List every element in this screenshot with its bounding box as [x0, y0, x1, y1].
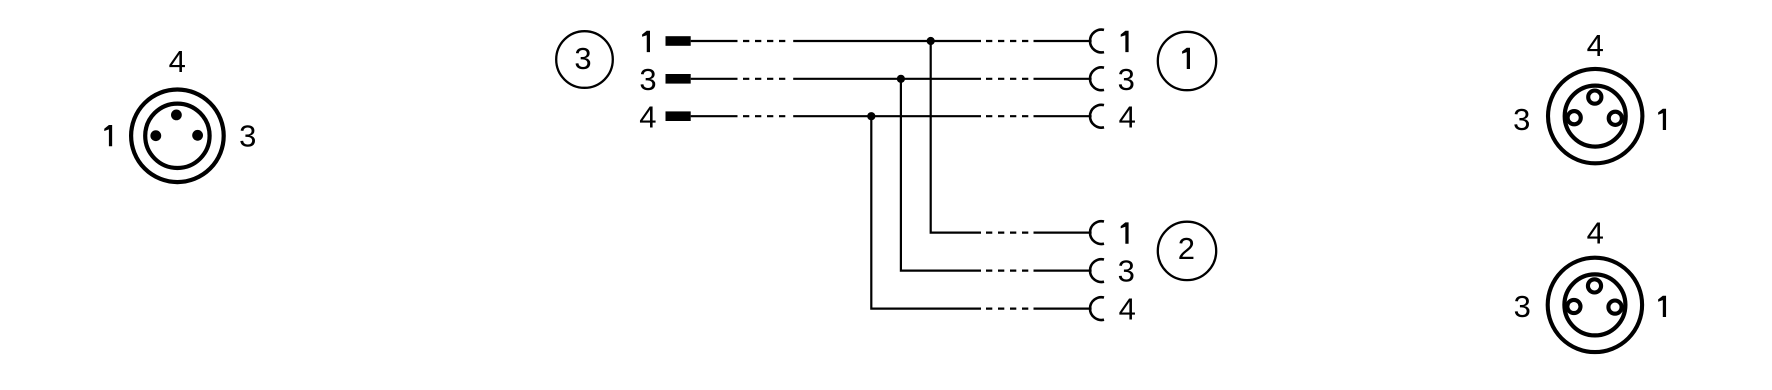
pin 3 (male, right): [192, 130, 203, 141]
wire pin4 solid right: [1034, 115, 1092, 117]
wire pin3 dashed right: [986, 78, 1028, 80]
wire branch pin1 to connector 2: [931, 41, 981, 233]
pin 4 (male, top): [171, 110, 182, 121]
wire pin1 dashed left: [743, 40, 785, 42]
wire pin4 dashed right: [986, 115, 1028, 117]
male contact pin 4 (schematic): [666, 111, 691, 121]
male contact pin 1 (schematic): [666, 36, 691, 46]
female contact conn1 pin 1: [1090, 30, 1104, 53]
wire pin4 solid left: [691, 115, 738, 117]
label conn2 face pin 1: [1658, 296, 1666, 317]
male contact pin 3 (schematic): [666, 74, 691, 84]
female contact conn1 pin 3: [1090, 67, 1104, 90]
wire branch pin3 to connector 2: [901, 79, 981, 271]
female contact conn2 pin 1: [1090, 221, 1104, 244]
socket 1 (conn1 face, right): [1609, 112, 1622, 125]
label conn1 face pin 1: [1658, 109, 1666, 130]
wire pin4 solid mid: [793, 115, 981, 117]
svg-text:3: 3: [639, 62, 656, 97]
wire pin1 solid left: [691, 40, 738, 42]
socket 3 (conn1 face, left): [1568, 111, 1581, 124]
junction pin4 branch: [867, 112, 875, 120]
wire conn2 pin1 solid right: [1034, 232, 1092, 234]
female contact conn2 pin 4: [1090, 297, 1104, 320]
socket 4 (conn2 face, top): [1588, 279, 1601, 292]
wire conn2 pin3 dashed: [986, 270, 1028, 272]
svg-text:3: 3: [574, 41, 591, 76]
male connector face view (left): [131, 90, 224, 183]
label pin 1 row (left): [642, 31, 650, 52]
wire pin4 dashed left: [743, 115, 785, 117]
female contact conn2 pin 3: [1090, 259, 1104, 282]
socket 3 (conn2 face, left): [1567, 300, 1580, 313]
wire pin1 solid mid: [793, 40, 981, 42]
wire pin1 dashed right: [986, 40, 1028, 42]
wire pin3 solid left: [691, 78, 738, 80]
socket 4 (conn1 face, top): [1588, 91, 1601, 104]
connector 3 designator circle: [556, 31, 613, 88]
svg-text:4: 4: [1119, 292, 1136, 327]
junction pin1 branch: [927, 37, 935, 45]
wire conn2 pin1 dashed: [986, 232, 1028, 234]
svg-text:3: 3: [1514, 289, 1531, 324]
svg-text:3: 3: [1118, 254, 1135, 289]
pin 1 (male, left): [150, 130, 161, 141]
svg-text:3: 3: [239, 118, 256, 153]
connector 1 designator circle: [1158, 32, 1216, 90]
svg-text:3: 3: [1513, 102, 1530, 137]
svg-text:2: 2: [1178, 231, 1195, 266]
wire conn2 pin3 solid right: [1034, 270, 1092, 272]
svg-text:4: 4: [169, 44, 186, 79]
wire pin3 solid right: [1034, 78, 1092, 80]
wire branch pin4 to connector 2: [871, 116, 981, 308]
label pin 1 (male): [104, 125, 112, 146]
connector 2 designator circle: [1158, 222, 1216, 280]
wire pin3 solid mid: [793, 78, 981, 80]
socket 1 (conn2 face, right): [1608, 301, 1621, 314]
wire conn2 pin4 solid right: [1034, 308, 1092, 310]
svg-text:4: 4: [1587, 216, 1604, 251]
female connector conn1 face view: [1548, 69, 1642, 163]
label conn1 pin 1: [1121, 31, 1129, 52]
svg-text:4: 4: [1587, 28, 1604, 63]
label conn2 pin 1: [1121, 222, 1129, 243]
junction pin3 branch: [897, 75, 905, 83]
wire conn2 pin4 dashed: [986, 308, 1028, 310]
svg-text:4: 4: [639, 99, 656, 134]
svg-text:3: 3: [1118, 62, 1135, 97]
female contact conn1 pin 4: [1090, 105, 1104, 128]
wire pin3 dashed left: [743, 78, 785, 80]
wire pin1 solid right: [1034, 40, 1092, 42]
female connector conn2 face view: [1548, 258, 1642, 352]
svg-text:4: 4: [1119, 99, 1136, 134]
